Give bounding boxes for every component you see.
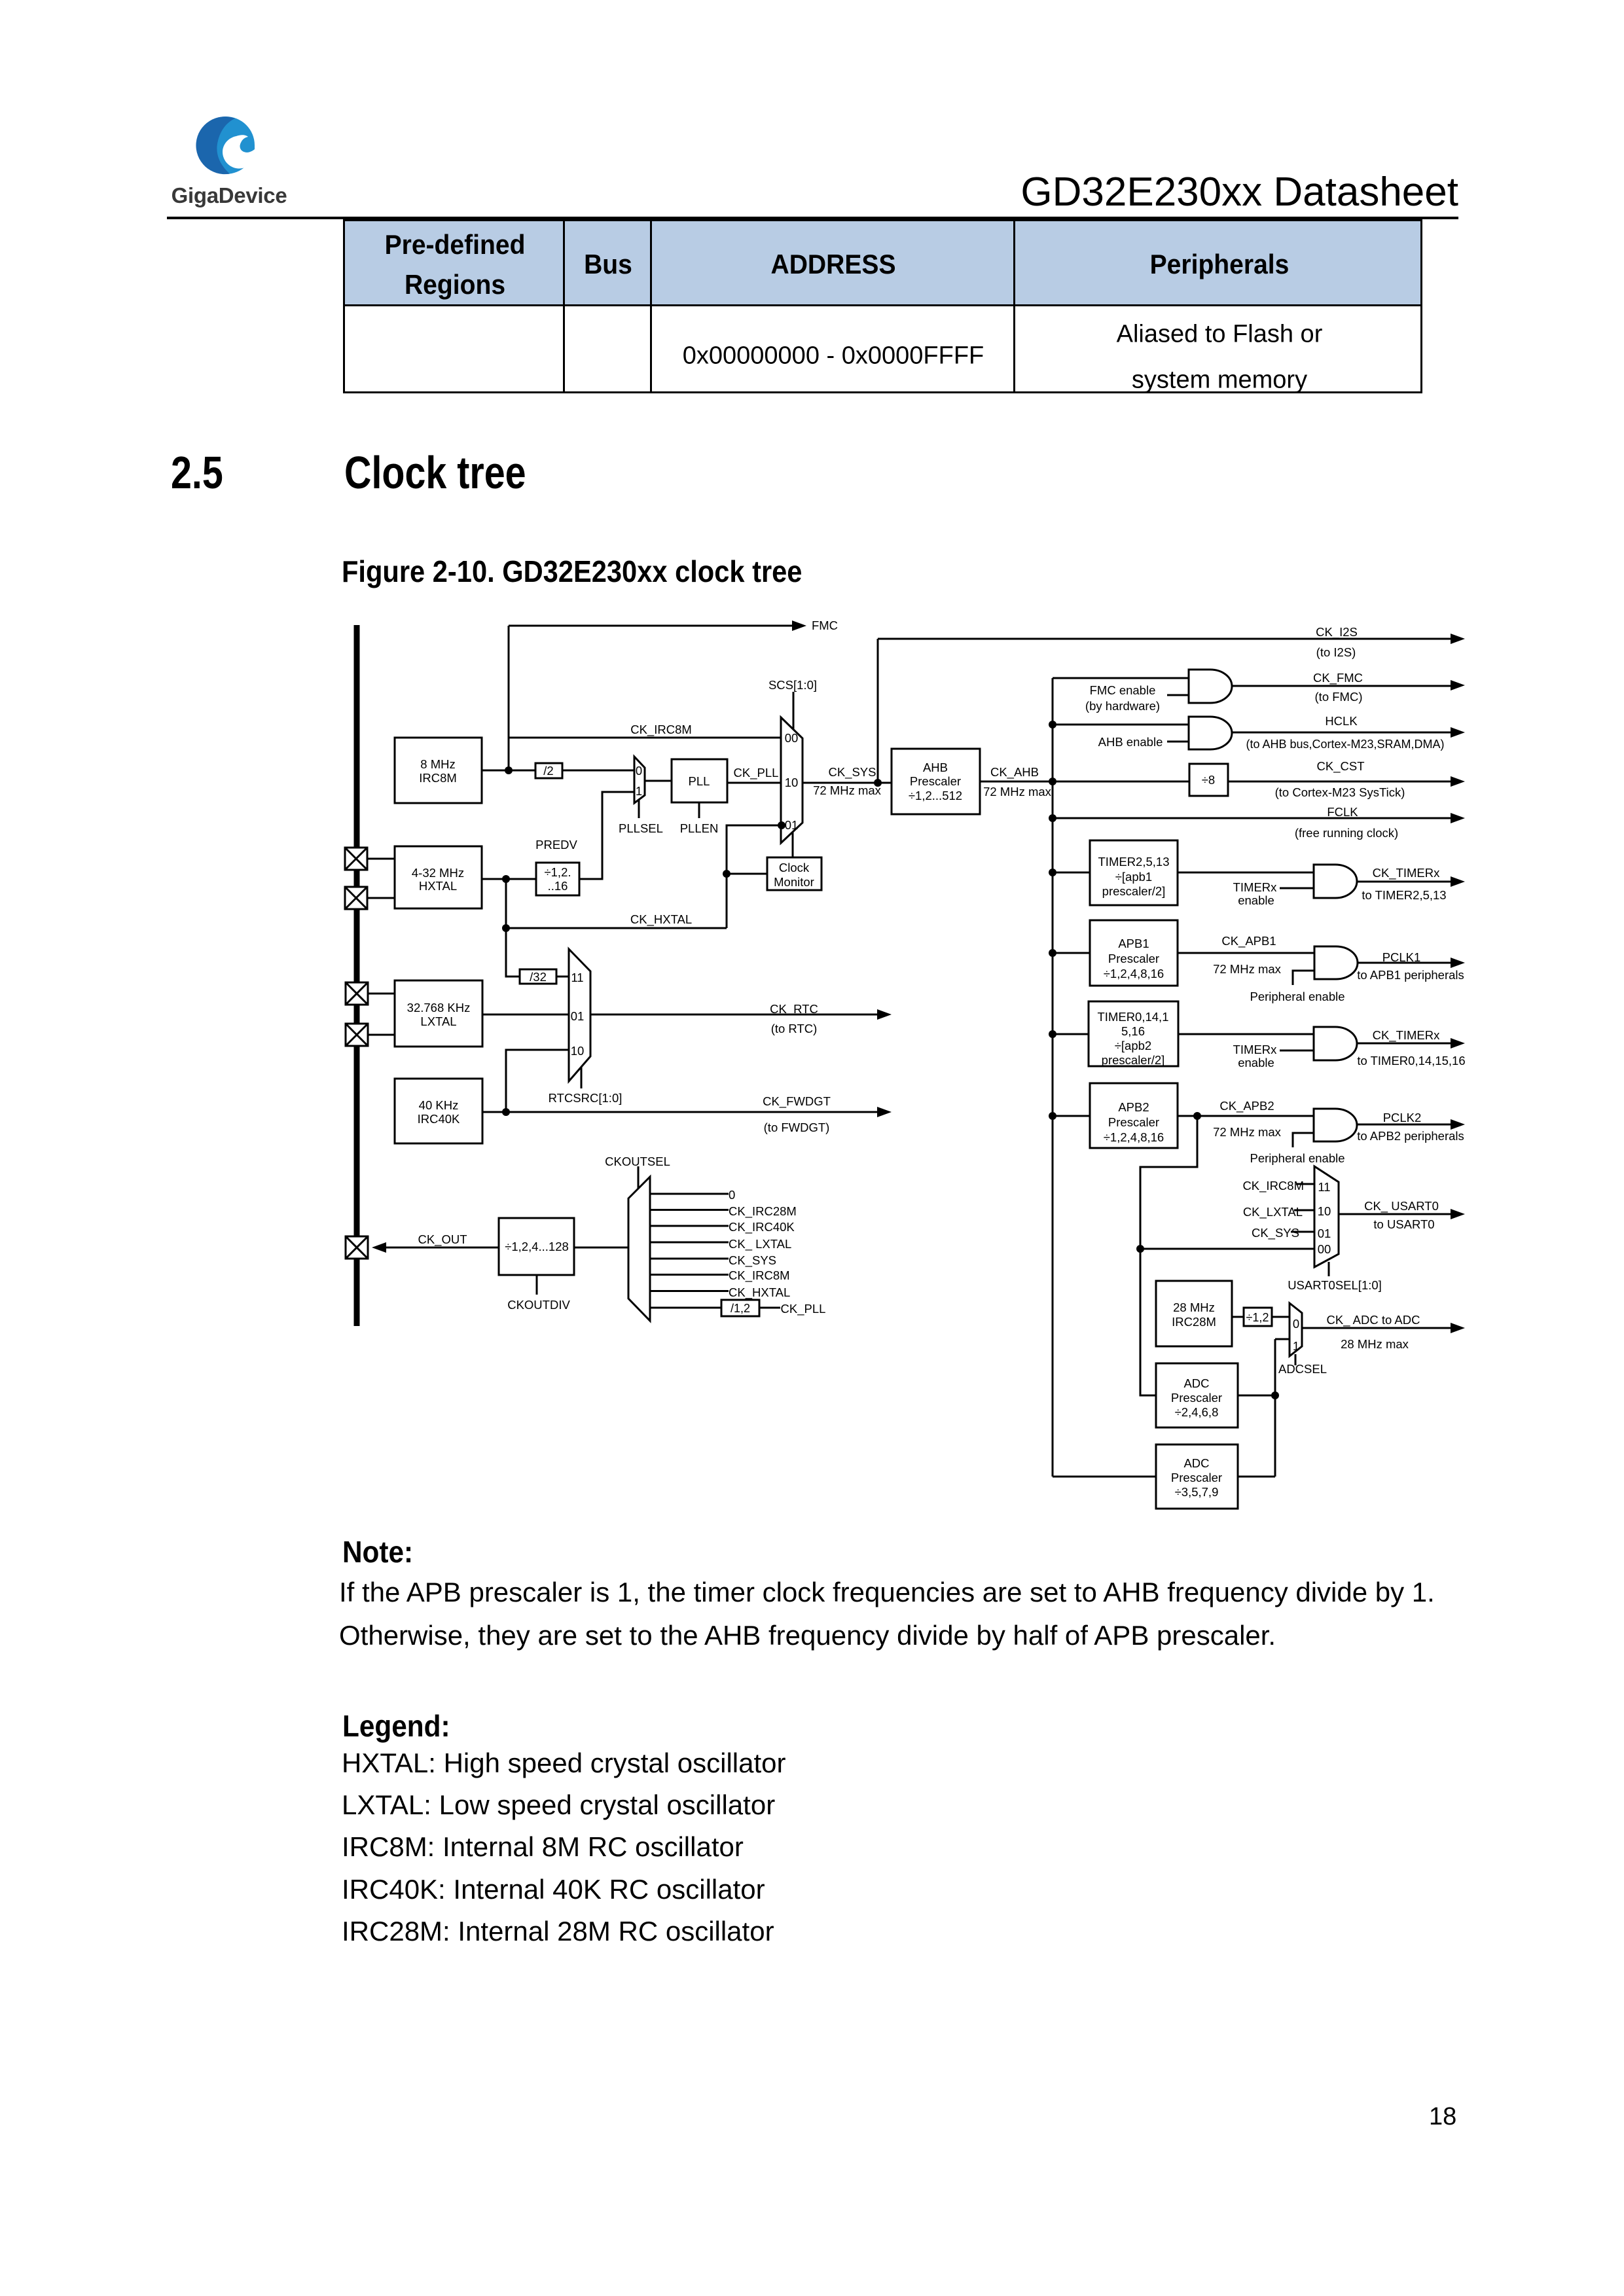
svg-text:CK_APB1: CK_APB1 [1221, 934, 1276, 948]
svg-text:(free running clock): (free running clock) [1295, 826, 1398, 840]
svg-text:to APB2 peripherals: to APB2 peripherals [1357, 1129, 1464, 1143]
svg-text:Peripheral enable: Peripheral enable [1250, 1151, 1344, 1165]
svg-text:Prescaler: Prescaler [1171, 1391, 1222, 1405]
svg-text:ADCSEL: ADCSEL [1278, 1362, 1327, 1376]
svg-text:..16: ..16 [548, 879, 568, 893]
svg-text:AHB enable: AHB enable [1098, 735, 1163, 749]
svg-text:TIMERx: TIMERx [1233, 1043, 1278, 1056]
svg-text:÷[apb2: ÷[apb2 [1115, 1039, 1151, 1052]
svg-text:10: 10 [785, 776, 799, 789]
svg-text:SCS[1:0]: SCS[1:0] [768, 678, 817, 692]
svg-text:00: 00 [785, 731, 799, 745]
svg-text:prescaler/2]: prescaler/2] [1102, 884, 1166, 898]
svg-text:to TIMER0,14,15,16: to TIMER0,14,15,16 [1357, 1054, 1465, 1067]
svg-text:÷3,5,7,9: ÷3,5,7,9 [1175, 1485, 1219, 1499]
svg-text:0: 0 [1293, 1317, 1299, 1331]
svg-text:TIMER0,14,1: TIMER0,14,1 [1098, 1010, 1169, 1024]
svg-text:4-32 MHz: 4-32 MHz [412, 866, 464, 880]
svg-text:(to AHB bus,Cortex-M23,SRAM,DM: (to AHB bus,Cortex-M23,SRAM,DMA) [1246, 738, 1444, 751]
svg-text:Prescaler: Prescaler [910, 774, 961, 788]
svg-text:FCLK: FCLK [1327, 805, 1358, 819]
svg-text:to TIMER2,5,13: to TIMER2,5,13 [1362, 888, 1446, 902]
svg-text:(to RTC): (to RTC) [771, 1022, 818, 1035]
svg-text:28 MHz: 28 MHz [1173, 1300, 1215, 1314]
svg-text:÷1,2,4,8,16: ÷1,2,4,8,16 [1104, 967, 1164, 980]
svg-text:FMC: FMC [812, 619, 838, 632]
svg-text:Prescaler: Prescaler [1108, 952, 1159, 965]
svg-text:CKOUTDIV: CKOUTDIV [507, 1298, 570, 1312]
svg-text:1: 1 [1293, 1339, 1299, 1353]
svg-text:to USART0: to USART0 [1373, 1217, 1434, 1231]
svg-text:0: 0 [636, 764, 642, 778]
svg-text:0: 0 [729, 1188, 735, 1202]
svg-text:enable: enable [1238, 893, 1274, 907]
svg-text:/2: /2 [543, 764, 553, 778]
svg-text:÷1,2.: ÷1,2. [544, 865, 571, 879]
svg-text:CK_LXTAL: CK_LXTAL [1243, 1205, 1303, 1219]
svg-text:FMC enable: FMC enable [1090, 683, 1156, 697]
svg-text:CK_SYS: CK_SYS [828, 765, 876, 780]
svg-text:72 MHz max: 72 MHz max [1213, 962, 1282, 976]
svg-text:AHB: AHB [923, 761, 948, 774]
svg-text:(to Cortex-M23 SysTick): (to Cortex-M23 SysTick) [1275, 785, 1405, 799]
svg-text:CKOUTSEL: CKOUTSEL [605, 1155, 670, 1168]
svg-text:ADC: ADC [1183, 1376, 1209, 1390]
svg-text:TIMER2,5,13: TIMER2,5,13 [1098, 855, 1170, 869]
svg-text:CK_ USART0: CK_ USART0 [1364, 1199, 1439, 1213]
svg-text:RTCSRC[1:0]: RTCSRC[1:0] [549, 1091, 623, 1105]
svg-text:PLLSEL: PLLSEL [619, 821, 663, 835]
svg-text:IRC8M: IRC8M [419, 771, 457, 785]
svg-text:IRC40K: IRC40K [418, 1112, 460, 1126]
svg-text:CK_SYS: CK_SYS [729, 1253, 776, 1268]
svg-text:PLL: PLL [689, 774, 710, 788]
svg-text:32.768 KHz: 32.768 KHz [407, 1001, 471, 1014]
svg-text:72 MHz max: 72 MHz max [983, 785, 1052, 798]
svg-text:/1,2: /1,2 [731, 1302, 750, 1315]
svg-text:CK_RTC: CK_RTC [770, 1002, 818, 1016]
svg-text:÷1,2...512: ÷1,2...512 [909, 789, 962, 802]
svg-text:01: 01 [571, 1009, 585, 1023]
svg-text:÷1,2: ÷1,2 [1246, 1311, 1269, 1324]
svg-text:CK_APB2: CK_APB2 [1219, 1099, 1274, 1113]
svg-text:8 MHz: 8 MHz [420, 757, 455, 771]
svg-text:28 MHz max: 28 MHz max [1341, 1337, 1409, 1351]
svg-text:72 MHz max: 72 MHz max [1213, 1125, 1282, 1139]
svg-text:5,16: 5,16 [1121, 1024, 1145, 1038]
svg-text:CK_CST: CK_CST [1317, 759, 1365, 774]
svg-text:Monitor: Monitor [774, 875, 814, 889]
svg-text:CK_PLL: CK_PLL [734, 766, 779, 780]
svg-text:CK_IRC8M: CK_IRC8M [1242, 1179, 1304, 1193]
svg-text:00: 00 [1318, 1242, 1331, 1256]
svg-text:CK_ LXTAL: CK_ LXTAL [729, 1237, 791, 1251]
svg-text:11: 11 [1318, 1180, 1330, 1194]
svg-text:APB1: APB1 [1118, 937, 1149, 950]
svg-text:(to FMC): (to FMC) [1315, 690, 1363, 704]
svg-text:10: 10 [1318, 1204, 1331, 1218]
svg-text:÷1,2,4,8,16: ÷1,2,4,8,16 [1104, 1130, 1164, 1144]
svg-text:CK_I2S: CK_I2S [1316, 625, 1358, 639]
svg-text:PLLEN: PLLEN [680, 821, 719, 835]
svg-text:TIMERx: TIMERx [1233, 880, 1278, 894]
svg-text:(by hardware): (by hardware) [1085, 699, 1160, 713]
svg-text:LXTAL: LXTAL [420, 1014, 456, 1028]
svg-text:Prescaler: Prescaler [1108, 1115, 1159, 1129]
svg-text:Clock: Clock [779, 861, 810, 874]
svg-text:to APB1 peripherals: to APB1 peripherals [1357, 968, 1464, 982]
svg-text:CK_IRC8M: CK_IRC8M [729, 1268, 790, 1283]
svg-text:IRC28M: IRC28M [1172, 1315, 1216, 1329]
svg-text:CK_OUT: CK_OUT [418, 1232, 467, 1247]
svg-text:USART0SEL[1:0]: USART0SEL[1:0] [1288, 1278, 1382, 1292]
svg-text:CK_ ADC to ADC: CK_ ADC to ADC [1327, 1313, 1420, 1327]
svg-text:CK_HXTAL: CK_HXTAL [630, 912, 692, 927]
svg-text:01: 01 [785, 818, 799, 832]
svg-text:prescaler/2]: prescaler/2] [1102, 1053, 1165, 1067]
svg-text:PREDV: PREDV [535, 838, 577, 852]
svg-text:HCLK: HCLK [1325, 714, 1358, 728]
svg-text:01: 01 [1318, 1227, 1331, 1240]
svg-text:÷1,2,4...128: ÷1,2,4...128 [505, 1240, 569, 1253]
svg-text:CK_SYS: CK_SYS [1252, 1226, 1299, 1240]
svg-text:PCLK2: PCLK2 [1383, 1111, 1422, 1124]
svg-text:PCLK1: PCLK1 [1382, 950, 1421, 964]
svg-text:Peripheral enable: Peripheral enable [1250, 990, 1344, 1003]
svg-text:11: 11 [571, 971, 583, 984]
svg-text:ADC: ADC [1183, 1456, 1209, 1470]
svg-text:CK_PLL: CK_PLL [781, 1302, 826, 1316]
svg-text:CK_IRC40K: CK_IRC40K [729, 1220, 795, 1234]
svg-text:CK_HXTAL: CK_HXTAL [729, 1285, 790, 1300]
svg-text:÷[apb1: ÷[apb1 [1115, 870, 1152, 884]
svg-text:1: 1 [636, 784, 642, 798]
svg-text:CK_TIMERx: CK_TIMERx [1373, 866, 1441, 880]
svg-text:CK_FMC: CK_FMC [1313, 671, 1363, 685]
svg-text:HXTAL: HXTAL [419, 879, 457, 893]
svg-text:(to I2S): (to I2S) [1316, 645, 1356, 659]
svg-text:CK_TIMERx: CK_TIMERx [1373, 1028, 1441, 1043]
svg-text:CK_FWDGT: CK_FWDGT [763, 1094, 831, 1109]
svg-text:10: 10 [571, 1044, 585, 1058]
svg-text:CK_IRC8M: CK_IRC8M [630, 723, 692, 737]
svg-text:÷8: ÷8 [1202, 773, 1215, 787]
svg-text:(to FWDGT): (to FWDGT) [764, 1121, 830, 1134]
svg-text:40 KHz: 40 KHz [419, 1098, 459, 1112]
svg-text:CK_AHB: CK_AHB [990, 765, 1039, 780]
svg-text:/32: /32 [530, 970, 547, 984]
svg-text:Prescaler: Prescaler [1171, 1471, 1222, 1484]
svg-text:72 MHz max: 72 MHz max [813, 783, 882, 797]
svg-text:CK_IRC28M: CK_IRC28M [729, 1204, 797, 1219]
svg-text:APB2: APB2 [1118, 1100, 1149, 1114]
svg-text:÷2,4,6,8: ÷2,4,6,8 [1175, 1405, 1219, 1419]
svg-text:enable: enable [1238, 1056, 1274, 1069]
